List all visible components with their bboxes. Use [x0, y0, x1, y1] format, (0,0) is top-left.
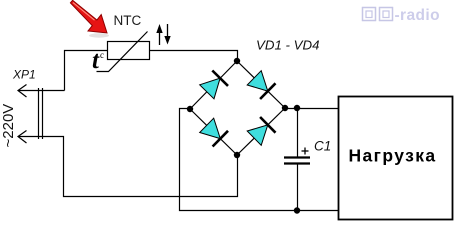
- variability arrow up: [156, 24, 162, 45]
- diode VD3 (left-bottom arm): [200, 118, 228, 146]
- svg-text:Нагрузка: Нагрузка: [348, 146, 436, 166]
- junction node: bridge bottom vertex: [234, 152, 240, 158]
- wire: upper mains lead from plug XP1 to riser: [19, 90, 65, 92]
- wire: riser up to thermistor row: [65, 51, 109, 91]
- thermistor diagonal stroke with foot: [97, 32, 148, 72]
- wire: thermistor output to bridge top vertex: [150, 51, 238, 62]
- svg-text:-radio: -radio: [395, 7, 440, 24]
- junction node: bridge right vertex: [282, 105, 288, 111]
- capacitor C1 top lead: [297, 108, 299, 157]
- capacitor C1 bottom lead: [297, 165, 299, 211]
- svg-text:t: t: [92, 47, 100, 74]
- junction node: capacitor tap on minus rail: [294, 207, 300, 213]
- junction node: capacitor tap on plus rail: [294, 105, 300, 111]
- wire: DC plus from bridge right vertex to load: [285, 108, 339, 110]
- bridge edge wires: [190, 61, 285, 155]
- svg-text:c: c: [100, 50, 104, 60]
- connector XP1 lower open arrowhead: [18, 131, 27, 144]
- svg-text:XP1: XP1: [12, 68, 36, 82]
- connector XP1 socket bars: [38, 88, 40, 139]
- go-radio watermark logo: [363, 8, 393, 21]
- variability arrow down: [164, 24, 170, 45]
- diode VD4 (bottom-right arm): [247, 117, 275, 145]
- wire: DC minus from bridge left vertex to load bottom rail: [180, 109, 339, 211]
- load box: [339, 97, 453, 220]
- diode VD1 (left-top arm): [200, 71, 228, 99]
- thermistor RK (NTC) body: [97, 32, 150, 72]
- junction node: bridge left vertex: [187, 106, 193, 112]
- svg-text:C1: C1: [314, 139, 331, 154]
- svg-text:NTC: NTC: [114, 13, 142, 28]
- capacitor plus sign: [302, 148, 309, 155]
- svg-text:VD1 - VD4: VD1 - VD4: [256, 38, 320, 53]
- wire: lower mains lead from plug to bridge bottom vertex: [19, 137, 238, 197]
- capacitor C1 plates: [284, 156, 310, 158]
- red callout arrow: [70, 0, 109, 37]
- svg-text:~220V: ~220V: [0, 104, 17, 148]
- connector XP1 upper open arrowhead: [18, 85, 27, 98]
- diode VD2 (top-right arm): [247, 71, 275, 99]
- junction node: bridge top vertex: [234, 58, 240, 64]
